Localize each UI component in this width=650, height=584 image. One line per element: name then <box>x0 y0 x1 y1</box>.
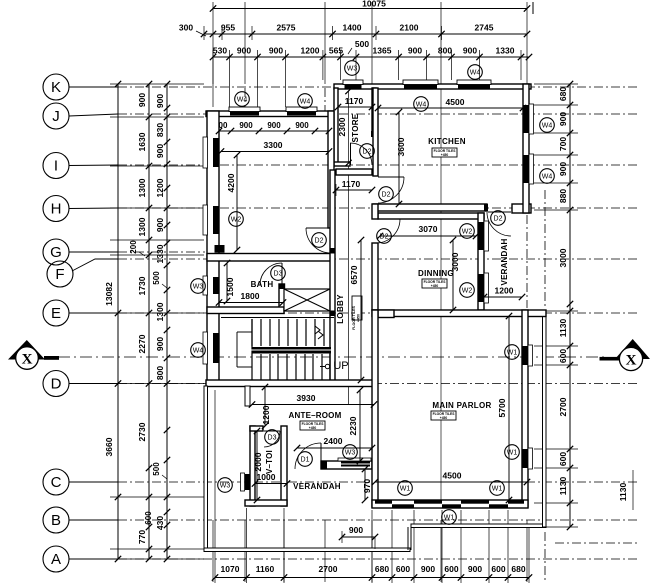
wall store right <box>372 88 376 132</box>
svg-text:600: 600 <box>558 452 568 466</box>
svg-text:1730: 1730 <box>137 276 147 295</box>
svg-text:2400: 2400 <box>324 436 343 446</box>
windows parlor south W1 alternating <box>375 501 392 504</box>
svg-text:STORE: STORE <box>351 113 360 142</box>
window sill store W3 <box>343 80 363 85</box>
dim 4200 left room <box>236 155 238 250</box>
svg-text:E: E <box>51 305 61 322</box>
svg-text:2700: 2700 <box>319 564 338 574</box>
top extension ticks <box>212 50 214 107</box>
svg-text:900: 900 <box>463 46 477 56</box>
svg-text:J: J <box>52 108 60 125</box>
svg-text:D2: D2 <box>315 237 324 244</box>
wall parlor east <box>522 310 528 507</box>
floor tiles box lobby <box>352 296 362 320</box>
wall vtoi bottom <box>245 500 287 506</box>
label circle W3 <box>191 279 206 294</box>
pier bath east top <box>279 284 286 289</box>
grid row K axis line <box>118 86 640 88</box>
dim 2300 store <box>345 88 351 94</box>
svg-text:W4: W4 <box>542 122 553 129</box>
svg-text:4500: 4500 <box>446 97 465 107</box>
svg-text:00: 00 <box>219 121 228 130</box>
dim 3000 dinning <box>452 240 454 310</box>
label circle W1 <box>442 510 457 525</box>
dim 2230 anteroom <box>359 390 361 461</box>
svg-text:G: G <box>50 244 62 261</box>
dim 1170 store <box>338 106 372 108</box>
svg-text:X: X <box>22 352 33 368</box>
svg-text:MAIN PARLOR: MAIN PARLOR <box>432 401 491 410</box>
svg-text:3000: 3000 <box>558 248 568 267</box>
wall terrace south right segment <box>411 524 546 528</box>
svg-text:C: C <box>51 474 62 491</box>
label circle W2 <box>460 224 475 239</box>
window kitchen east W4 upper <box>524 105 529 133</box>
svg-text:2730: 2730 <box>137 422 147 441</box>
dim 900 bottom verandah <box>342 536 375 538</box>
vertical line store 2300 dim and lobby extension <box>348 91 350 404</box>
leader line C <box>69 481 118 483</box>
svg-text:530: 530 <box>213 46 227 56</box>
window kitchen east W4 lower <box>524 155 529 183</box>
dim 3600 kitchen <box>398 112 400 204</box>
dim 4500 kitchen <box>378 107 523 109</box>
stairs top boundary <box>221 317 334 319</box>
svg-text:1200: 1200 <box>261 405 271 424</box>
wall dinning top <box>378 213 484 219</box>
svg-text:2000: 2000 <box>253 452 263 471</box>
svg-text:KITCHEN: KITCHEN <box>428 137 466 146</box>
dim 2000 vtoi <box>256 431 258 500</box>
floor tiles box dinning <box>422 279 447 288</box>
svg-text:W4: W4 <box>416 101 427 108</box>
stairs lower flight treads <box>260 354 262 380</box>
section marker X right triangle <box>615 339 650 359</box>
dim 3070 dinning <box>380 235 476 237</box>
svg-text:900: 900 <box>267 121 281 130</box>
svg-text:6570: 6570 <box>349 265 359 284</box>
svg-text:500: 500 <box>355 39 369 49</box>
svg-text:2100: 2100 <box>400 23 419 33</box>
svg-text:880: 880 <box>558 189 568 203</box>
grid bubble J <box>43 103 69 129</box>
svg-text:4200: 4200 <box>226 173 236 192</box>
label circle W3 <box>345 61 360 76</box>
wall left room east upper <box>328 111 334 228</box>
svg-text:1200: 1200 <box>495 286 514 296</box>
wall terrace step <box>407 527 409 550</box>
grid row H axis line <box>118 207 640 209</box>
door leaf kitchen verandah D2 <box>488 211 511 213</box>
grid bubble K <box>43 74 69 100</box>
svg-text:4500: 4500 <box>443 471 462 481</box>
window sill left room W4 b <box>286 107 317 112</box>
section marker X left triangle <box>8 340 45 360</box>
door arc dinning D2 <box>376 219 400 243</box>
leader line E <box>69 312 118 314</box>
wall verandah south edge <box>204 548 410 552</box>
door leaf left room D2 <box>306 227 331 229</box>
leader line B <box>69 519 118 521</box>
svg-text:1170: 1170 <box>342 179 361 189</box>
svg-text:VERANDAH: VERANDAH <box>293 482 341 491</box>
pier left wall at bath bottom corner <box>215 307 225 313</box>
svg-text:600: 600 <box>558 349 568 363</box>
svg-text:A: A <box>51 551 61 568</box>
leader line D <box>69 383 118 385</box>
grid row right extra dash line <box>555 542 640 544</box>
svg-text:1300: 1300 <box>137 217 147 236</box>
left extension stubs <box>110 83 204 85</box>
wall top of kitchen and store <box>334 84 531 89</box>
dim 970 verandah <box>364 469 366 500</box>
wall bath bottom <box>207 307 284 314</box>
window vtoi W3 <box>245 474 251 490</box>
stairs up arrow <box>315 326 320 334</box>
pier left wall at bath top corner <box>215 245 225 253</box>
svg-text:W3: W3 <box>193 283 204 290</box>
label circle W4 <box>191 343 206 358</box>
dim subrow left room <box>219 130 329 132</box>
grid bubble C <box>43 469 69 495</box>
label circle W2 <box>229 212 244 227</box>
grid bubble F <box>47 261 73 287</box>
label circle D1 <box>298 452 313 467</box>
pier store right end <box>371 131 377 137</box>
svg-text:LOBBY: LOBBY <box>336 294 345 324</box>
svg-text:V–TOI: V–TOI <box>265 450 274 474</box>
svg-text:1130: 1130 <box>618 483 628 502</box>
svg-text:1400: 1400 <box>343 23 362 33</box>
svg-text:DINNING: DINNING <box>418 269 454 278</box>
wall vtoi left <box>250 426 255 506</box>
wall bath east <box>279 284 285 310</box>
svg-text:955: 955 <box>221 23 235 33</box>
svg-text:970: 970 <box>362 479 372 493</box>
svg-text:300: 300 <box>179 23 193 33</box>
leader line K <box>69 86 118 88</box>
svg-text:3600: 3600 <box>396 137 406 156</box>
label circle W4 <box>414 97 429 112</box>
svg-text:1170: 1170 <box>345 96 364 106</box>
door leaf D1 <box>320 443 322 469</box>
grid bubble D <box>43 371 69 397</box>
svg-text:2745: 2745 <box>475 23 494 33</box>
svg-text:I: I <box>54 158 58 175</box>
svg-text:1330: 1330 <box>155 244 165 263</box>
leader line J <box>69 114 118 116</box>
pier lobby wall at bath top <box>330 248 336 254</box>
window sill kitchen W4 a <box>403 80 438 85</box>
svg-text:W4: W4 <box>300 98 311 105</box>
label circle W4 <box>540 169 555 184</box>
grid bubble B <box>43 507 69 533</box>
svg-text:1365: 1365 <box>373 46 392 56</box>
section marker X left circle <box>16 347 39 370</box>
label circle W1 <box>505 445 520 460</box>
label circle W4 <box>235 92 250 107</box>
stairs rail bar <box>252 347 331 354</box>
label circle W3 <box>343 445 358 460</box>
label circle D2 <box>312 233 327 248</box>
wall vtoi top <box>250 426 263 431</box>
window parlor east W1 lower <box>523 449 528 468</box>
pier lobby wall at row E <box>330 311 336 317</box>
svg-text:2270: 2270 <box>137 334 147 353</box>
svg-text:1200: 1200 <box>301 46 320 56</box>
svg-text:900: 900 <box>155 337 165 351</box>
svg-text:W3: W3 <box>345 449 356 456</box>
window dinning W2 lower <box>479 274 484 302</box>
label circle W4 <box>468 65 483 80</box>
svg-text:2575: 2575 <box>277 23 296 33</box>
dim 3300 left room <box>221 151 329 153</box>
grid row B axis line <box>118 519 640 521</box>
svg-text:500: 500 <box>152 271 161 285</box>
top dimension row 3 <box>213 56 529 58</box>
window parlor east W1 upper <box>523 346 528 365</box>
svg-text:W4: W4 <box>470 69 481 76</box>
grid column mid dashes <box>283 520 285 582</box>
grid row C axis line <box>118 481 640 483</box>
wall vtoi right <box>281 426 287 506</box>
door leaf dinning D2 <box>376 218 400 220</box>
label circle W1 <box>398 481 413 496</box>
wall parlor top / dinning bottom <box>372 310 546 317</box>
grid column axis lines <box>212 2 214 84</box>
svg-text:VERANDAH: VERANDAH <box>500 239 509 286</box>
wall dinning east <box>478 213 484 310</box>
window sill left room W4 a <box>229 107 260 112</box>
leader 300 row2 <box>196 31 206 36</box>
door leaf kitchen west D2 <box>378 176 404 178</box>
svg-text:D2: D2 <box>494 215 503 222</box>
svg-text:F: F <box>55 266 64 283</box>
svg-text:D2: D2 <box>363 148 372 155</box>
stairs landing outline <box>236 332 238 367</box>
vertical extension line 441 through rooms <box>440 88 442 500</box>
svg-text:1160: 1160 <box>256 564 275 574</box>
svg-text:FLOOR TILES: FLOOR TILES <box>352 306 356 330</box>
label circle W4 <box>540 118 555 133</box>
svg-text:900: 900 <box>237 46 251 56</box>
svg-text:2300: 2300 <box>337 117 347 136</box>
grid row F axis line <box>118 258 640 260</box>
svg-text:ANTE–ROOM: ANTE–ROOM <box>289 411 342 420</box>
wall parlor south with windows <box>372 500 528 508</box>
wall step dinning bottom left <box>378 310 394 318</box>
door arc bath D3 <box>260 263 282 285</box>
dim 1500 bath <box>226 263 228 301</box>
section marker X right circle <box>619 347 642 370</box>
svg-text:+450: +450 <box>441 153 449 157</box>
svg-text:1200: 1200 <box>155 178 165 197</box>
wall top of left room <box>206 111 334 117</box>
wall parlor west <box>372 310 378 507</box>
svg-text:900: 900 <box>349 525 363 535</box>
label circle D2 <box>360 144 375 159</box>
grid bubble H <box>43 196 69 222</box>
svg-text:565: 565 <box>329 46 343 56</box>
wall store left <box>334 88 338 164</box>
svg-text:900: 900 <box>155 218 165 232</box>
svg-text:1070: 1070 <box>221 564 240 574</box>
grid row E axis line <box>118 312 640 314</box>
dim 4500 parlor <box>375 481 527 483</box>
svg-text:1300: 1300 <box>137 178 147 197</box>
door leaf vtoi D3 <box>264 430 280 432</box>
label circle D2 <box>491 211 506 226</box>
svg-text:X: X <box>626 353 637 369</box>
svg-text:900: 900 <box>558 112 568 126</box>
svg-text:900: 900 <box>421 564 435 574</box>
svg-text:830: 830 <box>155 123 165 137</box>
svg-text:5700: 5700 <box>497 398 507 417</box>
svg-text:W4: W4 <box>542 173 553 180</box>
svg-text:D: D <box>51 376 62 393</box>
door arc D1 <box>295 443 321 469</box>
svg-text:900: 900 <box>155 144 165 158</box>
wall niche below store <box>336 169 372 175</box>
svg-text:W1: W1 <box>400 485 411 492</box>
bottom dimension row <box>215 577 529 579</box>
svg-text:+450: +450 <box>309 426 317 430</box>
top dimension row 2 <box>204 33 527 35</box>
door leaf bath D3 <box>281 263 283 285</box>
left dimension column middle <box>148 84 150 559</box>
window left room W4 b <box>287 112 316 116</box>
window sill anteroom W3 <box>338 458 371 461</box>
stairs UP arrow marker <box>325 364 329 368</box>
window left W2 upper <box>213 138 219 167</box>
svg-text:900: 900 <box>155 94 165 108</box>
leader line I <box>69 164 118 167</box>
svg-text:770: 770 <box>137 530 147 544</box>
door arc store D2 <box>350 143 372 165</box>
window store W3 <box>345 85 362 89</box>
svg-text:680: 680 <box>375 564 389 574</box>
grid dash verandah east columns <box>526 215 528 308</box>
bottom extension stubs <box>214 390 216 583</box>
svg-text:W4: W4 <box>237 96 248 103</box>
svg-text:1630: 1630 <box>137 132 147 151</box>
svg-text:W1: W1 <box>507 449 518 456</box>
grid bubble G <box>43 239 69 265</box>
svg-text:UP: UP <box>333 360 348 372</box>
svg-text:W1: W1 <box>444 514 455 521</box>
window kitchen top W4 a <box>404 85 437 89</box>
window left W2 lower <box>213 206 219 234</box>
door leaf store D2 <box>350 143 352 165</box>
section marker X right bar <box>600 357 620 361</box>
wall store bottom <box>334 162 350 166</box>
wall kitchen west <box>373 88 378 176</box>
svg-text:+450: +450 <box>357 314 361 322</box>
grid row G axis line <box>118 251 205 253</box>
svg-text:1300: 1300 <box>155 302 165 321</box>
svg-text:3660: 3660 <box>104 437 114 456</box>
top dimension line 10075 <box>213 8 527 10</box>
label circle D2 <box>379 187 394 202</box>
svg-text:1800: 1800 <box>241 291 260 301</box>
dim 3930 anteroom <box>252 404 374 406</box>
shaft crossed box <box>284 289 330 311</box>
left dimension column outer 13082 <box>117 84 119 559</box>
dim 1170 lobby <box>336 189 372 191</box>
label circle W1 <box>490 481 505 496</box>
svg-text:200: 200 <box>129 240 138 254</box>
grid bubble E <box>43 300 69 326</box>
dim 1200 vtoi <box>264 387 266 426</box>
wall anteroom south with window <box>321 461 372 469</box>
dim 1000 vtoi <box>255 483 287 485</box>
svg-text:10075: 10075 <box>362 0 386 9</box>
svg-text:D2: D2 <box>382 191 391 198</box>
floor tiles box parlor <box>431 411 456 420</box>
svg-text:W2: W2 <box>462 228 473 235</box>
door arc vtoi D3 <box>264 431 280 447</box>
svg-text:600: 600 <box>144 511 153 525</box>
window sill kitchen W4 b <box>457 80 491 85</box>
window left bath W3 <box>213 277 219 294</box>
svg-text:1500: 1500 <box>225 277 235 296</box>
left dimension column inner <box>166 84 168 559</box>
grid row I axis line <box>118 164 640 166</box>
pier kitchen bottom wall end <box>484 204 488 212</box>
leader line A <box>69 558 118 560</box>
section line X-X <box>58 356 605 358</box>
wall stairs bottom <box>206 380 374 387</box>
dim 5700 parlor <box>508 316 510 500</box>
leader line F <box>72 259 118 271</box>
svg-text:500: 500 <box>152 462 161 476</box>
wall vtoi connector <box>245 386 250 406</box>
window dinning W2 upper <box>479 222 484 250</box>
svg-text:K: K <box>51 79 61 96</box>
svg-text:1330: 1330 <box>496 46 515 56</box>
leader line G <box>69 251 118 253</box>
svg-text:BATH: BATH <box>251 280 274 289</box>
svg-text:680: 680 <box>511 564 525 574</box>
svg-text:W3: W3 <box>220 482 231 489</box>
svg-text:900: 900 <box>295 121 309 130</box>
grid bubble I <box>43 153 69 179</box>
label circle D2 <box>377 229 392 244</box>
svg-text:W2: W2 <box>231 216 242 223</box>
svg-text:W1: W1 <box>507 349 518 356</box>
svg-text:900: 900 <box>137 93 147 107</box>
svg-text:900: 900 <box>468 564 482 574</box>
svg-text:800: 800 <box>155 366 165 380</box>
svg-text:900: 900 <box>269 46 283 56</box>
grid row J axis line <box>118 113 640 115</box>
door arc kitchen verandah D2 <box>487 212 511 236</box>
wall bath top <box>207 254 334 262</box>
label circle W2 <box>460 283 475 298</box>
wall dinning west <box>372 243 378 310</box>
floor tiles box kitchen <box>432 148 457 157</box>
svg-text:1130: 1130 <box>558 477 568 496</box>
svg-text:D3: D3 <box>268 434 277 441</box>
grid row A axis line <box>118 558 640 560</box>
svg-text:2230: 2230 <box>348 416 358 435</box>
svg-text:3300: 3300 <box>264 140 283 150</box>
svg-text:+450: +450 <box>431 284 439 288</box>
dim 6570 lobby <box>360 240 362 380</box>
stairs upper flight treads <box>251 319 253 346</box>
svg-text:+450: +450 <box>440 416 448 420</box>
